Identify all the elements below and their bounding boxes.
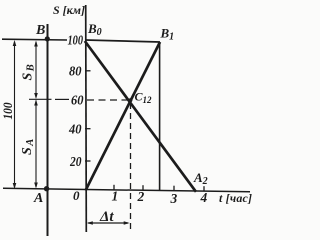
60-level short bar at dimension junction bbox=[29, 98, 52, 100]
svg-text:Δt: Δt bbox=[99, 209, 114, 225]
t axis (horizontal) bbox=[3, 188, 250, 192]
svg-text:60: 60 bbox=[71, 94, 84, 109]
x tick 3 bbox=[173, 186, 175, 191]
delta-t dimension line bbox=[88, 222, 128, 224]
x tick 1 bbox=[113, 185, 115, 190]
svg-text:B: B bbox=[35, 23, 45, 38]
point B bbox=[45, 36, 50, 41]
x tick 2 bbox=[142, 185, 144, 190]
svg-text:4: 4 bbox=[200, 190, 208, 205]
point A bbox=[44, 186, 49, 191]
y tick 80 bbox=[85, 70, 91, 72]
svg-text:1: 1 bbox=[112, 189, 119, 204]
svg-text:40: 40 bbox=[68, 123, 81, 138]
S axis (vertical) bbox=[85, 5, 88, 232]
y tick 20 bbox=[85, 160, 91, 162]
60-level dashed line from axis to C12 bbox=[87, 99, 128, 101]
60-level dash left of axis bbox=[55, 98, 69, 100]
dashed vertical from C12 to below axis bbox=[130, 103, 132, 229]
dimension arrow SA bbox=[35, 101, 37, 188]
svg-text:3: 3 bbox=[170, 191, 178, 206]
x tick 4 bbox=[203, 186, 205, 191]
svg-text:2: 2 bbox=[137, 189, 145, 204]
svg-text:A: A bbox=[33, 191, 43, 206]
svg-text:S [км]: S [км] bbox=[53, 3, 85, 17]
top-right horizontal line from B0 to B1 bbox=[86, 40, 161, 42]
dimension arrow SB bbox=[35, 42, 37, 98]
vertical line below B1 bbox=[159, 42, 161, 191]
svg-text:80: 80 bbox=[69, 65, 82, 80]
dimension arrow 100 (left) bbox=[14, 42, 16, 188]
svg-text:100: 100 bbox=[68, 34, 84, 49]
top-left horizontal line at 100 level bbox=[2, 38, 67, 41]
point C12 bbox=[128, 98, 132, 102]
descending line B0 -> A2 bbox=[85, 41, 196, 192]
svg-text:0: 0 bbox=[73, 188, 80, 203]
svg-text:t [час]: t [час] bbox=[219, 191, 252, 205]
svg-text:20: 20 bbox=[69, 155, 81, 170]
svg-text:100: 100 bbox=[0, 102, 15, 119]
left vertical line through B and A bbox=[47, 24, 49, 236]
ascending line 0 -> B1 bbox=[86, 42, 161, 191]
y tick 40 bbox=[85, 128, 91, 130]
